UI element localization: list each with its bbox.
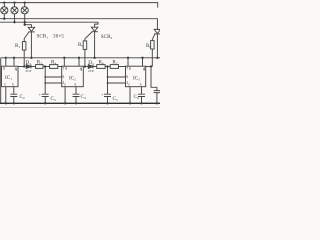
svg-text:6: 6 bbox=[126, 75, 128, 79]
wire lamp1 leads bbox=[3, 3, 5, 19]
svg-text:R5: R5 bbox=[78, 42, 83, 48]
wire stage3 feedback branch bbox=[151, 67, 157, 91]
resistor R5 bbox=[83, 41, 87, 50]
svg-text:SCR2: SCR2 bbox=[101, 34, 113, 40]
svg-text:C4: C4 bbox=[81, 94, 86, 100]
capacitor C6 bbox=[138, 94, 145, 96]
svg-text:8: 8 bbox=[65, 67, 67, 71]
IC3 bottom pin 5 bbox=[141, 87, 143, 95]
resistor R4 bbox=[50, 65, 58, 69]
IC2 bottom pin 1 bbox=[64, 87, 66, 104]
svg-text:IC2: IC2 bbox=[69, 76, 76, 82]
capacitor C7 bbox=[154, 91, 160, 93]
resistor R8 bbox=[151, 41, 155, 49]
svg-text:R3: R3 bbox=[37, 59, 42, 65]
node top bus dots bbox=[3, 1, 5, 3]
svg-text:5: 5 bbox=[12, 83, 14, 87]
svg-text:6: 6 bbox=[62, 75, 64, 79]
node pin stub dots bbox=[44, 76, 46, 78]
lamp H2 bbox=[11, 7, 18, 14]
svg-text:C2: C2 bbox=[20, 94, 25, 100]
svg-text:5: 5 bbox=[140, 83, 142, 87]
svg-text:5: 5 bbox=[74, 83, 76, 87]
svg-text:8: 8 bbox=[3, 67, 5, 71]
wire stage3 output bbox=[146, 66, 153, 68]
wire top supply bus bbox=[0, 3, 158, 8]
IC3 bottom pin 1 bbox=[129, 87, 131, 104]
wire faint bottom line bbox=[0, 107, 160, 109]
node line C dot bbox=[24, 24, 26, 26]
wire timing node 2 bbox=[107, 67, 109, 95]
svg-text:1: 1 bbox=[4, 83, 6, 87]
svg-text:C6: C6 bbox=[134, 94, 139, 100]
svg-text:2CP: 2CP bbox=[88, 69, 94, 73]
svg-text:C5: C5 bbox=[113, 96, 118, 102]
capacitor C4 bbox=[73, 94, 80, 96]
SCR Q2 bbox=[85, 27, 98, 58]
junction dots bbox=[3, 1, 158, 104]
resistor R6 bbox=[97, 65, 105, 69]
wire lamp3 leads bbox=[24, 3, 26, 25]
SCR Q1 bbox=[24, 27, 34, 58]
svg-text:+: + bbox=[101, 92, 104, 97]
SCR Q3 bbox=[152, 29, 160, 57]
svg-text:7: 7 bbox=[62, 67, 64, 71]
svg-text:IC3: IC3 bbox=[133, 76, 140, 82]
wire line C lamp3 to SCR1 anode bbox=[25, 25, 32, 28]
IC2 top pins bbox=[64, 58, 79, 66]
svg-text:R7: R7 bbox=[112, 60, 117, 66]
wire trigger bus bbox=[1, 57, 160, 59]
wire line B lamp2 to SCR2 anode bbox=[0, 22, 98, 28]
IC2 box bbox=[62, 66, 84, 87]
node ground dots bbox=[5, 102, 7, 104]
IC1 bottom pin 1 bbox=[5, 87, 7, 104]
svg-text:1: 1 bbox=[64, 83, 66, 87]
wire stage2 output bbox=[83, 66, 88, 68]
svg-text:D3: D3 bbox=[88, 60, 94, 66]
svg-text:D2: D2 bbox=[26, 60, 32, 66]
lamp H3 bbox=[21, 7, 28, 14]
svg-text:IC1: IC1 bbox=[5, 75, 12, 81]
wire timing node 1 bbox=[44, 67, 46, 95]
resistor R1 bbox=[22, 42, 26, 50]
resistor R3 bbox=[36, 65, 43, 69]
svg-text:1: 1 bbox=[128, 83, 130, 87]
svg-text:C3: C3 bbox=[51, 96, 56, 102]
svg-text:8: 8 bbox=[129, 67, 131, 71]
IC1 box bbox=[2, 66, 19, 87]
IC3 top pins bbox=[128, 58, 143, 66]
capacitor C3 bbox=[42, 94, 49, 96]
svg-text:7: 7 bbox=[126, 67, 128, 71]
node trigger bus dots bbox=[5, 57, 7, 59]
capacitor C2 bbox=[10, 94, 17, 96]
svg-text:R4: R4 bbox=[51, 59, 56, 65]
IC3 box bbox=[126, 66, 146, 87]
IC1 bottom pin 5 bbox=[13, 87, 15, 95]
wire lamp2 leads bbox=[14, 3, 16, 23]
svg-text:3: 3 bbox=[143, 68, 145, 72]
wire line A lamp1 to SCR3 anode bbox=[0, 19, 157, 30]
node line A dot bbox=[3, 18, 5, 20]
wire ground bus bbox=[0, 102, 160, 104]
svg-text:3: 3 bbox=[80, 68, 82, 72]
svg-text:R1: R1 bbox=[15, 43, 20, 49]
capacitor C5 bbox=[104, 94, 111, 96]
lamp H1 bbox=[1, 7, 8, 14]
svg-text:2CP: 2CP bbox=[26, 69, 32, 73]
IC2 bottom pin 5 bbox=[75, 87, 77, 95]
node output wire dots bbox=[23, 65, 25, 67]
svg-text:+: + bbox=[39, 92, 42, 97]
svg-text:30×5: 30×5 bbox=[53, 34, 64, 39]
wire stage1 output bbox=[18, 66, 26, 68]
node line B dot bbox=[13, 21, 15, 23]
resistor R7 bbox=[110, 65, 118, 69]
svg-text:R6: R6 bbox=[99, 60, 104, 66]
wire left edge branch bbox=[0, 58, 2, 104]
diode D3 bbox=[88, 65, 93, 69]
IC1 top pins bbox=[6, 58, 14, 66]
diode D2 bbox=[26, 65, 31, 69]
svg-text:3: 3 bbox=[15, 68, 17, 72]
svg-text:SCR1: SCR1 bbox=[37, 33, 49, 39]
